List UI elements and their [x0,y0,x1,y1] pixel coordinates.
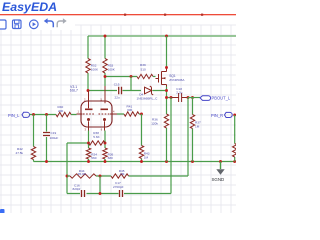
svg-text:PIN_L: PIN_L [8,113,20,118]
wire: top supply rail [88,35,236,37]
wire: plate-to-plate row y=90.5 (C15 / D4 row) [88,90,167,92]
svg-text:100uF: 100uF [50,136,59,140]
toolbar icon: run/play [30,20,39,29]
junction gate row / C15 tap [130,75,133,78]
junction common rail x=46.5 [45,160,48,163]
wire: MOSFET drain drop from rail [166,36,168,68]
svg-text:200: 200 [58,109,63,113]
resistor R24 [86,148,97,162]
capacitor C17 2700pF [113,181,124,197]
junction R53 bottom node [104,75,107,78]
wire: left plate branch vertical [87,36,89,91]
zener diode D4 1N5366BRL [137,86,159,100]
junction input row x=46.5 [45,113,48,116]
junction at (166.5,97.5) [165,96,168,99]
junction common rail x=220.5 [219,160,222,163]
junction left plate node [87,89,90,92]
svg-text:2M: 2M [120,172,125,176]
resistor R43 [139,146,149,160]
svg-text:1M: 1M [144,155,149,159]
resistor R40 [56,105,71,117]
svg-text:2700pF: 2700pF [113,185,124,189]
wire: left cathode drop [88,131,90,149]
red divider line [0,14,236,16]
junction common rail x=166.5 [165,160,168,163]
wire: long common rail y=161.5 [34,161,235,163]
svg-text:100K: 100K [108,68,116,72]
toolbar icon: redo arrow (disabled) [57,18,67,27]
resistor R52 [86,59,99,74]
resistor R42 [16,147,36,160]
junction right cathode node [104,142,107,145]
svg-text:PIN_R: PIN_R [211,113,223,118]
wire: bypass row y=176 [67,175,188,177]
svg-text:EasyEDA: EasyEDA [2,0,57,14]
svg-text:100K: 100K [91,68,99,72]
resistor R36 [151,114,169,128]
EasyEDA logo [2,0,57,14]
junction R41 right node [140,113,143,116]
junction R44 right node [99,175,102,178]
transistor SQ1 ZVN0545A (N-MOSFET) [156,66,186,86]
wire: R42 column [33,115,35,162]
wire: R36 column (below MOSFET source) [166,114,168,162]
toolbar icon: document (cut off at edge) [0,20,6,29]
resistor R38 [89,131,106,145]
wire: C19 column [46,115,48,162]
net port PBOUT_L [200,96,231,101]
junction on top rail at x=105 [104,35,107,38]
wire: cathode row to bypass column x=67 [67,142,89,144]
net port PIN_R [211,112,232,118]
svg-text:ZVN0545A: ZVN0545A [169,78,185,82]
bottom-left blue UI marker [0,209,5,214]
resistor R44 [70,169,96,178]
wire: right plate branch vertical [104,36,106,86]
junction common rail x=105 [104,160,107,163]
resistor at right edge (partially visible) [233,144,237,158]
svg-text:300: 300 [127,108,132,112]
wire: R44/C16 link column x=100 [99,176,101,194]
junction at (171,97.5) [170,96,173,99]
svg-text:C15: C15 [114,83,120,87]
svg-text:6SL7: 6SL7 [70,88,78,92]
junction PIN_R pin [233,114,236,117]
wire: right cathode drop [104,131,106,149]
svg-text:5.6K: 5.6K [93,135,100,139]
wire: grid row to R41 [117,113,142,115]
capacitor C16 820pF [73,183,85,197]
junction common rail x=141.5 [140,160,143,163]
toolbar icon: save [13,20,22,29]
junction input row x=33.5 [32,113,35,116]
svg-text:560: 560 [91,156,96,160]
svg-text:2.2u: 2.2u [176,91,182,95]
net port PIN_L [8,112,30,118]
vacuum tube V3.1 6SL7 (dual triode) [70,85,117,132]
junction common rail x=88.5 [87,160,90,163]
toolbar icon: undo arrow [44,18,54,27]
wire: PIN_L input row y=114.5 [30,114,77,116]
wire: riser x=188 from output node to bypass row [187,98,189,177]
svg-text:PBOUT_L: PBOUT_L [212,96,231,101]
svg-text:47.5k: 47.5k [16,151,24,155]
junction R37 column tap [191,96,194,99]
svg-text:820pf: 820pf [73,187,81,191]
wire: cathode bypass column x=67 [66,143,68,194]
capacitor C19 100uF [43,131,58,140]
resistor R37 [190,115,201,129]
wire: short link source column to C18 branch [167,97,172,99]
junction on top rail at x=166.5 [165,35,168,38]
junction C18 right / feedback column [187,96,190,99]
svg-text:1N5366BRL_C: 1N5366BRL_C [137,96,159,100]
junction common rail x=192.5 [191,160,194,163]
svg-text:22u: 22u [115,96,120,100]
svg-text:C19: C19 [51,131,57,135]
wire: R43 column [141,114,143,162]
svg-text:SGND: SGND [212,177,225,182]
wire: riser x=171 from C18 node to bottom row [170,98,172,194]
junction left cathode node [87,142,90,145]
resistor R53 [103,59,116,74]
wire: R37 column [192,98,194,162]
ground SGND [212,162,225,183]
junction x=67 y=176 [66,175,69,178]
resistor R41 [124,105,139,117]
junction C16/C17 row x=100 [99,192,102,195]
wire: right edge column [234,115,236,162]
svg-text:1M: 1M [195,124,200,128]
wire: C18 to output port [188,97,200,99]
wire: R39 to gate [153,76,156,78]
svg-text:680: 680 [108,156,113,160]
wire: bottom row y=193.5 [67,193,171,195]
capacitor C18 2.2u [171,87,188,102]
resistor R26 [103,148,114,162]
wire: R53 node to gate row y=76.5 [105,76,137,78]
svg-text:120k: 120k [151,121,158,125]
svg-text:95.3R: 95.3R [78,172,87,176]
junction D4 cathode / source column [165,89,168,92]
resistor R39 [137,63,153,79]
resistor R45 [111,169,129,178]
svg-text:510: 510 [141,67,146,71]
capacitor C15 22u [114,83,122,100]
wire: C15 tap drop [130,77,132,91]
junction common rail x=234.7 [233,160,236,163]
wire: MOSFET source down to output column [166,87,168,115]
